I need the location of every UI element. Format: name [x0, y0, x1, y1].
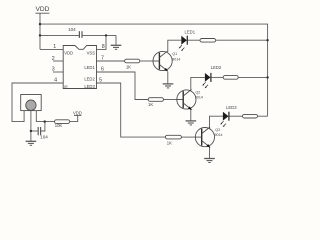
svg-text:1: 1 [53, 44, 56, 50]
svg-text:10K: 10K [55, 123, 63, 128]
svg-text:LED1: LED1 [185, 30, 196, 35]
svg-text:IR: IR [64, 85, 68, 89]
svg-text:3: 3 [52, 67, 55, 73]
svg-text:8: 8 [102, 44, 105, 50]
svg-text:104: 104 [68, 27, 76, 32]
svg-text:5: 5 [99, 78, 102, 84]
svg-text:9014: 9014 [215, 133, 223, 137]
svg-text:VSS: VSS [87, 51, 96, 56]
svg-text:1K: 1K [148, 102, 153, 107]
svg-text:VDD: VDD [73, 110, 82, 115]
svg-text:LED3: LED3 [84, 84, 95, 89]
svg-text:9014: 9014 [172, 57, 180, 61]
svg-text:Q3: Q3 [215, 128, 220, 132]
svg-text:LED2: LED2 [84, 77, 95, 82]
svg-text:104: 104 [40, 135, 48, 140]
svg-text:LED3: LED3 [226, 105, 237, 110]
svg-text:1K: 1K [126, 65, 131, 70]
svg-text:LED1: LED1 [84, 65, 95, 70]
svg-text:9014: 9014 [195, 96, 203, 100]
svg-text:LED2: LED2 [211, 65, 222, 70]
svg-text:6: 6 [101, 66, 104, 72]
svg-text:VDD: VDD [64, 51, 73, 56]
svg-text:7: 7 [101, 56, 104, 62]
svg-text:Q1: Q1 [172, 52, 177, 56]
svg-text:Q2: Q2 [196, 91, 201, 95]
svg-text:VDD: VDD [35, 6, 49, 13]
svg-text:2: 2 [52, 56, 55, 62]
svg-text:1K: 1K [167, 141, 172, 146]
svg-text:4: 4 [54, 78, 57, 84]
